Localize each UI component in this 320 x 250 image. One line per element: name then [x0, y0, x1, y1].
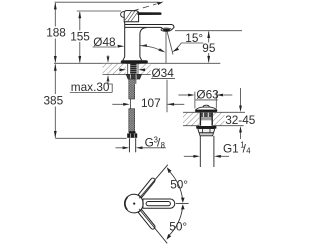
G1 1/4 arrows tails	[184, 155, 195, 157]
counter hatch left of hole	[103, 64, 126, 74]
svg-text:4: 4	[246, 146, 251, 155]
arc arrow upper end	[167, 167, 172, 173]
svg-text:385: 385	[44, 93, 64, 107]
dim 95 line	[208, 31, 210, 42]
dim 155 line	[79, 12, 81, 31]
dim 188 line	[54, 3, 56, 27]
svg-text:Ø34: Ø34	[152, 66, 175, 80]
svg-text:8: 8	[161, 141, 165, 150]
hose end fitting	[129, 131, 136, 133]
svg-text:50°: 50°	[169, 220, 187, 234]
dim 107 right tail	[167, 103, 184, 105]
188 bottom	[54, 56, 57, 63]
lever knob	[121, 11, 139, 22]
slanted 15 deg stream line	[167, 31, 173, 55]
O63 right	[217, 94, 224, 97]
upper phantom arm	[138, 178, 155, 197]
ext line 155 level	[77, 10, 121, 12]
O48 right arrow	[140, 44, 147, 47]
pivot circle	[125, 194, 144, 213]
ext line hose end	[55, 137, 126, 139]
svg-text:155: 155	[70, 29, 90, 43]
counter bottom line	[103, 73, 151, 75]
arc arrows at horizontal line	[181, 198, 185, 203]
aerator	[163, 29, 171, 32]
lever bar	[138, 12, 162, 15]
dim 107 line left tail	[112, 103, 124, 105]
top ext arrow (lever direction)	[157, 2, 164, 5]
dashed lever raised position	[133, 4, 157, 11]
spout bottom line	[125, 27, 163, 28]
dim 32-45 vertical	[240, 88, 242, 106]
arc arrow lower end	[167, 234, 172, 240]
mounting nut	[126, 74, 141, 79]
flange nut below counter	[196, 126, 216, 129]
95 bottom	[207, 56, 210, 63]
svg-text:50°: 50°	[170, 177, 188, 191]
flexible hose lower part	[129, 109, 135, 133]
95 top	[207, 31, 210, 38]
155 bottom	[78, 56, 81, 63]
G3/8 thread	[129, 138, 135, 152]
15deg arc arrow right	[172, 47, 179, 52]
counter hatch right of hole	[140, 64, 151, 74]
max30 top	[107, 56, 110, 63]
107 right	[168, 103, 175, 106]
escutcheon base plate	[121, 60, 148, 63]
dimension texts	[44, 25, 256, 155]
arrowheads (slim filled triangles)	[54, 2, 242, 158]
lower ext line	[139, 209, 167, 243]
G3/8 left tail	[116, 147, 124, 149]
counter top line	[54, 62, 220, 64]
O48 left arrow	[118, 45, 125, 48]
O34 left	[119, 68, 126, 71]
lower 50 arc	[168, 207, 183, 237]
upper 50 arc	[168, 171, 182, 200]
max30 leader	[107, 55, 109, 58]
waste body through hole	[200, 113, 212, 118]
aerator ring	[161, 28, 171, 31]
15deg arc arrow left	[158, 48, 165, 52]
threaded shank	[128, 64, 138, 75]
G3/8 right tail under text	[142, 147, 166, 149]
horizontal ext line	[176, 202, 189, 204]
tailpiece tube	[199, 136, 201, 167]
faucet side view	[123, 22, 174, 61]
flexible hose upper part	[129, 79, 135, 99]
385 bottom	[54, 131, 57, 138]
leader curves near 15deg	[108, 43, 181, 92]
svg-text:32-45: 32-45	[225, 113, 256, 127]
188 top	[54, 2, 57, 9]
dim 63 arrows tails	[178, 94, 188, 96]
O34 right	[139, 68, 146, 71]
G38 left	[123, 146, 130, 149]
O63 left	[188, 94, 195, 97]
upper ext line	[139, 165, 168, 199]
dim 385 line	[54, 64, 56, 94]
ext line top (lever raised height)	[55, 1, 160, 3]
waste counter hatch	[183, 112, 200, 125]
32-45 top	[239, 106, 242, 113]
385 top	[54, 64, 57, 71]
svg-text:G: G	[145, 135, 154, 149]
faucet body outline	[123, 22, 147, 61]
ext line spout level	[175, 30, 242, 32]
max30 bottom	[107, 75, 110, 82]
G114 left	[193, 155, 200, 158]
G114 right	[214, 155, 221, 158]
svg-text:107: 107	[141, 96, 161, 110]
hose gap at dim row	[129, 99, 131, 109]
spout top line	[125, 25, 174, 30]
ext lines from cap	[194, 92, 196, 109]
32-45 bottom	[239, 126, 242, 133]
pop-up waste	[178, 88, 245, 167]
bottom view: handle swing	[125, 178, 175, 229]
107 left	[123, 103, 130, 106]
svg-text:95: 95	[202, 41, 216, 55]
lower phantom arm	[138, 210, 155, 229]
155 top	[78, 11, 81, 18]
G38 right	[136, 146, 143, 149]
waste cap	[195, 107, 217, 110]
svg-text:188: 188	[46, 25, 66, 39]
vertical stream reference line	[165, 31, 167, 63]
svg-text:G1: G1	[223, 142, 239, 156]
handle horizontal	[143, 199, 175, 208]
